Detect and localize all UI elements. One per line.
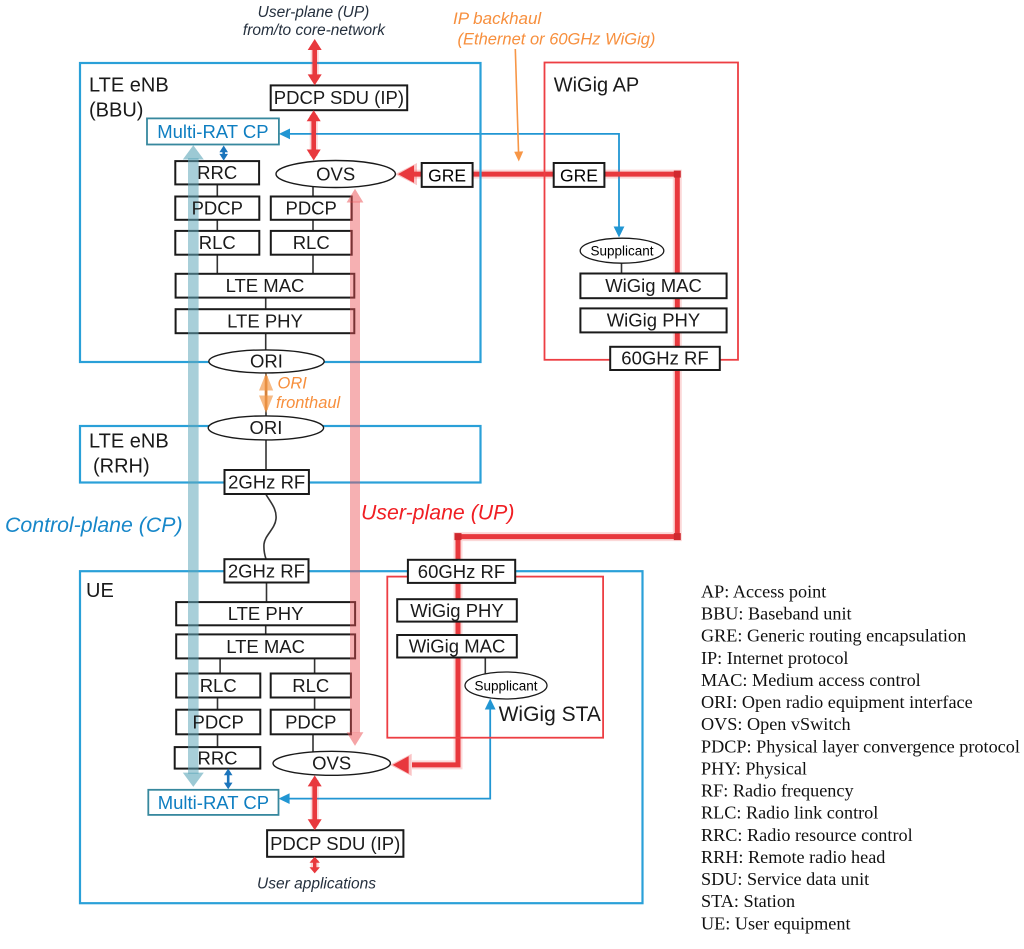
svg-text:WiGig MAC: WiGig MAC xyxy=(605,275,702,296)
corner dot at GRE path corner top xyxy=(674,171,681,178)
node: Supplicant ellipse (UE) xyxy=(465,672,547,699)
box: RRC (UE) xyxy=(175,747,261,769)
arrowhead up into OVS (UE) bottom xyxy=(308,775,322,786)
band arrowhead down into Multi-RAT CP (UE) xyxy=(183,773,204,787)
arrowhead down into PDCP SDU (BBU) xyxy=(308,74,322,85)
svg-text:from/to core-network: from/to core-network xyxy=(243,22,386,39)
svg-text:ORI: Open radio equipment inte: ORI: Open radio equipment interface xyxy=(701,692,973,712)
svg-text:WiGig PHY: WiGig PHY xyxy=(410,600,504,621)
band arrowhead up into OVS (BBU) xyxy=(347,189,364,203)
arrowhead down into PDCP SDU (UE) top xyxy=(308,819,322,830)
svg-text:LTE PHY: LTE PHY xyxy=(227,311,303,332)
legend: abbreviation list xyxy=(701,582,1020,934)
box: PDCP left (UE) xyxy=(176,710,260,735)
box: RLC left (UE) xyxy=(176,674,260,698)
box: 60GHz RF (UE) xyxy=(408,560,515,583)
wire: black connector LTE MAC to LTE PHY (BBU) xyxy=(265,298,267,310)
svg-text:PDCP: Physical layer convergen: PDCP: Physical layer convergence protoco… xyxy=(701,736,1020,756)
svg-text:IP: Internet protocol: IP: Internet protocol xyxy=(701,648,848,668)
arrow: red double arrow PDCP SDU to User applications (UE) main xyxy=(313,861,316,869)
svg-text:LTE MAC: LTE MAC xyxy=(226,636,305,657)
svg-text:MAC: Medium access control: MAC: Medium access control xyxy=(701,670,921,690)
arrow: orange double arrow ORI fronthaul stem xyxy=(265,376,268,410)
box: LTE PHY (UE) xyxy=(176,602,355,625)
container: WiGig STA box xyxy=(387,577,603,738)
wire: blue control-plane line from Supplicant (UE) to Multi-RAT CP (UE) xyxy=(281,703,490,799)
svg-text:60GHz RF: 60GHz RF xyxy=(418,561,505,582)
svg-text:2GHz RF: 2GHz RF xyxy=(228,471,305,492)
box: PDCP SDU (IP) (UE) xyxy=(267,830,403,857)
svg-text:RLC: RLC xyxy=(200,675,237,696)
box: RLC left (BBU) xyxy=(175,231,259,255)
arrow glow: PDCP SDU to OVS (BBU) xyxy=(310,115,318,156)
svg-text:(BBU): (BBU) xyxy=(89,100,143,122)
svg-text:GRE: GRE xyxy=(560,165,598,185)
arrowhead left into Multi-RAT CP (BBU) xyxy=(279,129,290,140)
box: WiGig PHY (UE) xyxy=(397,599,517,621)
corner dot at path corner bottom right xyxy=(674,533,681,540)
arrowhead into OVS (BBU) glow xyxy=(395,163,417,185)
svg-text:User-plane (UP): User-plane (UP) xyxy=(361,500,514,524)
svg-text:User-plane (UP): User-plane (UP) xyxy=(258,4,370,21)
svg-text:RRC: RRC xyxy=(197,747,237,768)
svg-text:PDCP SDU (IP): PDCP SDU (IP) xyxy=(270,833,400,854)
svg-text:RRC: Radio resource control: RRC: Radio resource control xyxy=(701,825,913,845)
wire: squiggly radio link between 2GHz RF boxes xyxy=(264,495,276,560)
wire: black connector RLC to LTE MAC (BBU left column) xyxy=(216,255,218,274)
wire: black connector RLC to PDCP right (UE) xyxy=(314,698,316,710)
svg-text:Control-plane (CP): Control-plane (CP) xyxy=(5,513,183,537)
svg-text:PDCP: PDCP xyxy=(192,711,243,732)
svg-text:(Ethernet or 60GHz WiGig): (Ethernet or 60GHz WiGig) xyxy=(458,30,656,48)
wire: black connector ORI (RRH) to 2GHz RF xyxy=(265,440,267,470)
svg-text:WiGig PHY: WiGig PHY xyxy=(607,310,701,331)
arrow: orange fronthaul arrowhead up xyxy=(259,373,273,391)
band: wide light-red user-plane band OVS (BBU) to OVS (UE) xyxy=(350,202,360,733)
box: WiGig MAC (AP) xyxy=(580,274,726,299)
box: RLC right (BBU) xyxy=(271,231,352,255)
wire: black connector WiGig MAC to Supplicant (UE) xyxy=(484,658,486,674)
svg-text:PDCP: PDCP xyxy=(192,198,243,219)
svg-text:2GHz RF: 2GHz RF xyxy=(228,560,305,581)
arrow glow: PDCP SDU to User applications (UE) xyxy=(311,860,319,870)
container: LTE eNB (BBU) box xyxy=(80,63,481,362)
svg-text:OVS: Open vSwitch: OVS: Open vSwitch xyxy=(701,714,851,734)
svg-text:UE: User equipment: UE: User equipment xyxy=(701,913,851,933)
svg-text:RLC: RLC xyxy=(199,232,236,253)
box: 2GHz RF (RRH) xyxy=(225,470,309,494)
band arrowhead down into OVS (UE) xyxy=(347,732,364,746)
svg-text:PDCP: PDCP xyxy=(285,711,336,732)
arrowhead up into Supplicant (UE) xyxy=(485,699,496,710)
svg-text:OVS: OVS xyxy=(316,163,355,184)
svg-text:fronthaul: fronthaul xyxy=(276,394,342,412)
box: 2GHz RF (UE) xyxy=(224,559,308,582)
arrow: small blue double arrow RRC to Multi-RAT CP (UE) xyxy=(227,774,230,785)
svg-text:ORI: ORI xyxy=(250,351,283,372)
svg-text:AP: Access point: AP: Access point xyxy=(701,582,826,602)
svg-text:60GHz RF: 60GHz RF xyxy=(621,348,708,369)
arrowhead into OVS (BBU) xyxy=(398,165,414,183)
svg-text:Supplicant: Supplicant xyxy=(474,678,537,693)
svg-text:SDU: Service data unit: SDU: Service data unit xyxy=(701,869,869,889)
node: ORI ellipse (RRH) xyxy=(208,416,323,440)
svg-text:RRC: RRC xyxy=(197,162,237,183)
svg-text:User applications: User applications xyxy=(257,875,376,892)
svg-text:WiGig MAC: WiGig MAC xyxy=(409,636,506,657)
arrowhead up toward core-network text xyxy=(308,39,322,50)
wire: black connector ORI (BBU) to ORI (RRH) xyxy=(265,373,267,417)
wire: black connector OVS to PDCP (BBU right column) xyxy=(312,187,314,197)
wire: black connector RLC to LTE MAC (BBU right column) xyxy=(312,255,314,274)
box: 60GHz RF (AP) xyxy=(610,347,720,370)
svg-text:RRH: Remote radio head: RRH: Remote radio head xyxy=(701,847,885,867)
arrow: red double arrow OVS to PDCP SDU (UE) main xyxy=(312,780,317,826)
box: PDCP right (UE) xyxy=(271,710,351,735)
arrow: red double arrow core-network to PDCP SDU (IP) main xyxy=(312,45,317,80)
arrowhead down into Supplicant (AP) xyxy=(614,227,625,238)
box: PDCP right (BBU) xyxy=(271,197,352,220)
svg-text:UE: UE xyxy=(86,580,114,602)
wire: blue control-plane line from Multi-RAT CP (BBU) to Supplicant (AP) xyxy=(281,134,619,231)
wire: black connector LTE MAC to RLC left (UE) xyxy=(219,658,221,673)
node: ORI ellipse (BBU) xyxy=(209,350,324,373)
svg-text:STA: Station: STA: Station xyxy=(701,891,795,911)
svg-text:ORI: ORI xyxy=(278,375,308,393)
container: WiGig AP box xyxy=(545,63,739,360)
svg-text:LTE eNB: LTE eNB xyxy=(89,75,169,97)
corner dot at path corner bottom left xyxy=(455,533,462,540)
box: RRC (BBU) xyxy=(175,161,259,184)
arrow: thin orange arrow from IP backhaul label to red line xyxy=(515,49,518,154)
arrowhead into OVS (UE) xyxy=(393,756,409,774)
svg-text:RLC: RLC xyxy=(293,232,330,253)
node: Supplicant ellipse (AP) xyxy=(580,238,664,263)
arrowhead up into PDCP SDU (BBU) bottom xyxy=(307,110,321,121)
wire: black connector 2GHz RF to LTE PHY (UE) xyxy=(266,583,268,603)
svg-text:GRE: Generic routing encapsula: GRE: Generic routing encapsulation xyxy=(701,626,966,646)
svg-text:Multi-RAT CP: Multi-RAT CP xyxy=(157,121,268,142)
box: GRE (AP) xyxy=(554,163,605,187)
svg-text:RLC: RLC xyxy=(292,675,329,696)
wire: black connector RLC to PDCP left (UE) xyxy=(217,698,219,710)
svg-text:RF: Radio frequency: RF: Radio frequency xyxy=(701,781,854,801)
arrow: orange fronthaul arrowhead down xyxy=(259,396,273,414)
svg-text:WiGig AP: WiGig AP xyxy=(554,75,640,97)
svg-text:WiGig STA: WiGig STA xyxy=(499,703,601,726)
svg-text:LTE MAC: LTE MAC xyxy=(226,275,305,296)
box: Multi-RAT CP (BBU) xyxy=(147,118,279,144)
svg-text:(RRH): (RRH) xyxy=(93,456,150,478)
wire: black connector PDCP to OVS (UE) xyxy=(312,734,314,752)
box: LTE PHY (BBU) xyxy=(176,309,355,333)
arrow glow: OVS to PDCP SDU (UE) xyxy=(311,780,319,826)
container: UE box xyxy=(80,571,643,903)
wire: black connector PDCP to RLC (BBU right column) xyxy=(312,220,314,231)
svg-text:LTE eNB: LTE eNB xyxy=(89,431,169,453)
arrowhead down toward User applications small xyxy=(310,867,320,873)
arrowhead into OVS (UE) glow xyxy=(390,754,412,776)
wire: black connector PDCP to RLC (BBU left column) xyxy=(216,220,218,231)
svg-text:Multi-RAT CP: Multi-RAT CP xyxy=(158,792,269,813)
band: wide teal control-plane band Multi-RAT CP (BBU) to Multi-RAT CP (UE) xyxy=(188,158,199,774)
band arrowhead up into Multi-RAT CP (BBU) xyxy=(183,145,204,159)
box: PDCP SDU (IP) (BBU) xyxy=(271,85,408,110)
container: LTE eNB (RRH) box xyxy=(80,426,481,483)
arrow: red double arrow core-network to PDCP SDU (IP) xyxy=(314,45,315,870)
node: OVS ellipse (UE) xyxy=(273,751,390,775)
wire: thick red user-plane path OVS(BBU)-GRE-GRE-60GHz RF-OVS(UE) glow xyxy=(412,174,677,765)
arrowhead left into Multi-RAT CP (UE) xyxy=(279,793,290,804)
wire: thick red user-plane path main stroke xyxy=(412,174,677,765)
wire: black connector LTE MAC to RLC right (UE) xyxy=(314,658,316,673)
svg-text:PDCP: PDCP xyxy=(285,198,336,219)
arrow: red double arrow PDCP SDU to OVS (BBU) main xyxy=(311,115,316,156)
svg-text:ORI: ORI xyxy=(249,417,282,438)
box: LTE MAC (UE) xyxy=(176,634,355,658)
svg-text:OVS: OVS xyxy=(312,753,351,774)
wire: black connector LTE PHY to LTE MAC (UE) xyxy=(265,625,267,634)
svg-text:LTE PHY: LTE PHY xyxy=(228,603,304,624)
wire: black connector RRC to PDCP (BBU left column) xyxy=(217,184,621,752)
wire: black connector PDCP to RRC (UE) xyxy=(217,734,219,747)
arrowhead up into PDCP SDU (UE) bottom small xyxy=(310,857,320,863)
node: OVS ellipse (BBU) xyxy=(276,161,395,188)
box: WiGig PHY (AP) xyxy=(580,308,726,332)
svg-text:PHY: Physical: PHY: Physical xyxy=(701,759,807,779)
arrowhead down into OVS (BBU) top xyxy=(307,150,321,161)
arrow: small blue double arrow RRC to Multi-RAT CP (BBU) xyxy=(222,151,225,156)
box: GRE (BBU) xyxy=(422,163,473,187)
box: Multi-RAT CP (UE) xyxy=(148,790,278,815)
svg-text:RLC: Radio link control: RLC: Radio link control xyxy=(701,803,878,823)
svg-text:IP backhaul: IP backhaul xyxy=(453,9,542,28)
svg-text:GRE: GRE xyxy=(428,165,466,185)
wire: black connector LTE PHY to ORI (BBU) xyxy=(265,333,267,350)
svg-text:Supplicant: Supplicant xyxy=(590,244,653,259)
box: PDCP left (BBU) xyxy=(175,197,259,220)
box: RLC right (UE) xyxy=(271,674,351,698)
box: WiGig MAC (UE) xyxy=(397,635,517,658)
svg-text:BBU: Baseband unit: BBU: Baseband unit xyxy=(701,604,852,624)
wire: black connector Supplicant to WiGig MAC (AP) xyxy=(621,263,623,274)
svg-text:PDCP SDU (IP): PDCP SDU (IP) xyxy=(274,87,404,108)
box: LTE MAC (BBU) xyxy=(176,274,355,298)
